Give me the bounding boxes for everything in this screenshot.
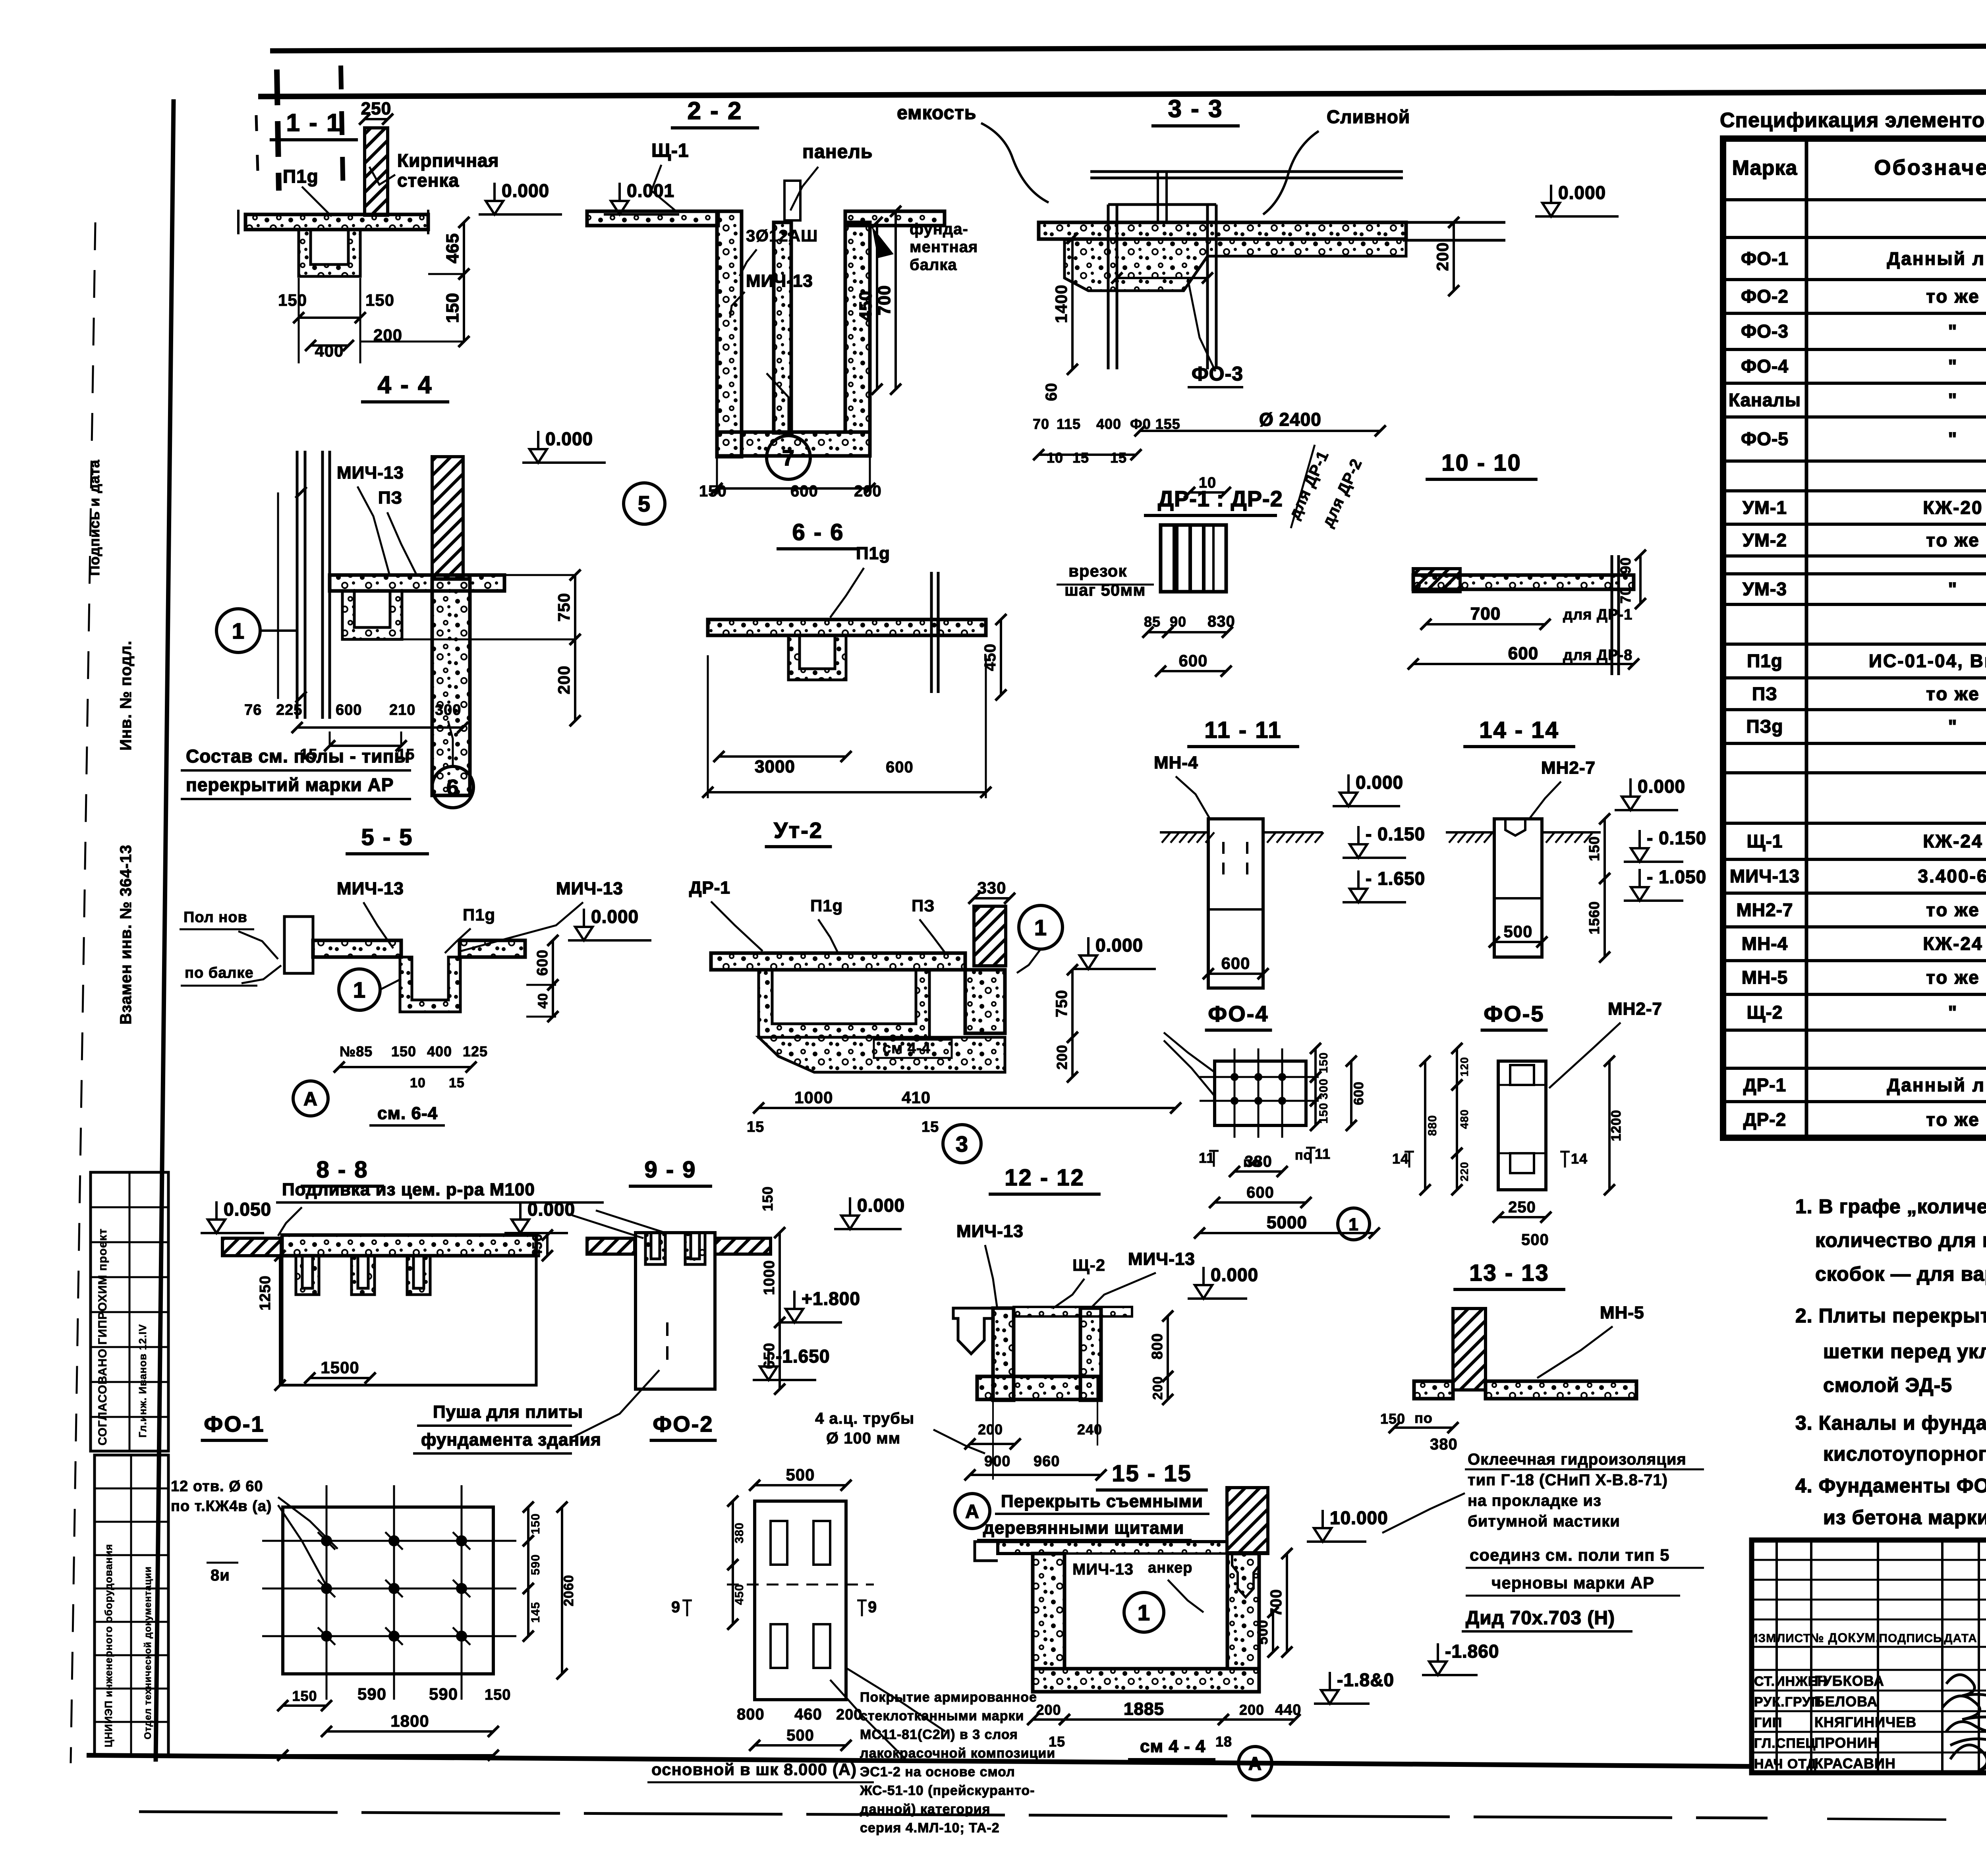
svg-text:ПРОНИН: ПРОНИН xyxy=(1814,1735,1878,1751)
svg-text:СОГЛАСОВАНО ГИПРОХИМ проект: СОГЛАСОВАНО ГИПРОХИМ проект xyxy=(96,1228,109,1446)
svg-text:КРАСАВИН: КРАСАВИН xyxy=(1814,1755,1896,1772)
svg-text:ДР-1: ДР-1 xyxy=(1743,1075,1786,1095)
svg-text:": " xyxy=(1948,356,1958,376)
svg-text:0.000: 0.000 xyxy=(545,428,593,449)
svg-text:1000: 1000 xyxy=(761,1260,778,1295)
svg-text:А: А xyxy=(1248,1753,1262,1774)
svg-text:500: 500 xyxy=(1503,922,1532,941)
svg-text:85: 85 xyxy=(1144,614,1161,630)
svg-text:НАЧ ОТД: НАЧ ОТД xyxy=(1754,1756,1816,1772)
svg-text:то же: то же xyxy=(1926,530,1980,550)
svg-text:1200: 1200 xyxy=(1609,1110,1624,1141)
svg-text:330: 330 xyxy=(977,878,1006,897)
svg-text:ПЗ: ПЗ xyxy=(912,896,935,915)
sheet left border xyxy=(156,99,174,1762)
title block xyxy=(1752,1540,1986,1773)
svg-text:0.000: 0.000 xyxy=(1638,776,1685,797)
svg-text:150: 150 xyxy=(759,1186,776,1211)
svg-text:- 0.150: - 0.150 xyxy=(1647,828,1706,848)
svg-text:Гл.инж. Иванов 12.IV: Гл.инж. Иванов 12.IV xyxy=(137,1324,149,1438)
svg-text:150: 150 xyxy=(292,1688,317,1704)
svg-text:150: 150 xyxy=(391,1043,416,1060)
svg-text:5: 5 xyxy=(638,491,651,516)
svg-text:ДР-2: ДР-2 xyxy=(1743,1109,1786,1130)
svg-text:МИЧ-13: МИЧ-13 xyxy=(337,463,404,483)
svg-text:1. В графе „количество" в: 1. В графе „количество" в скобках указан… xyxy=(1795,1195,1986,1218)
svg-text:по балке: по балке xyxy=(185,965,254,981)
svg-text:200: 200 xyxy=(1036,1702,1061,1718)
svg-text:УМ-3: УМ-3 xyxy=(1743,579,1787,599)
svg-text:210: 210 xyxy=(389,702,415,718)
svg-text:4 а.ц. трубы: 4 а.ц. трубы xyxy=(815,1410,914,1427)
svg-text:900: 900 xyxy=(984,1453,1010,1470)
svg-text:145: 145 xyxy=(529,1602,542,1623)
svg-text:200: 200 xyxy=(836,1706,862,1723)
svg-text:15: 15 xyxy=(1110,450,1127,466)
svg-text:Взамен инв. № 364-13: Взамен инв. № 364-13 xyxy=(117,845,135,1025)
svg-text:830: 830 xyxy=(1207,613,1235,630)
svg-text:-1.860: -1.860 xyxy=(1445,1641,1499,1662)
svg-text:Марка: Марка xyxy=(1732,156,1798,179)
svg-text:ЛИСТ: ЛИСТ xyxy=(1777,1632,1811,1645)
svg-text:240: 240 xyxy=(1077,1421,1102,1438)
svg-text:тип Г-18 (СНиП X-В.8-71): тип Г-18 (СНиП X-В.8-71) xyxy=(1468,1471,1668,1489)
svg-text:П1g: П1g xyxy=(810,896,843,915)
svg-text:8и: 8и xyxy=(211,1567,230,1584)
svg-text:15 - 15: 15 - 15 xyxy=(1112,1461,1192,1486)
svg-text:1560: 1560 xyxy=(1586,901,1602,934)
sheet bottom border xyxy=(87,1755,1751,1766)
svg-text:ФО-3: ФО-3 xyxy=(1741,321,1789,342)
svg-text:600: 600 xyxy=(1246,1184,1274,1201)
svg-text:Ø 100 мм: Ø 100 мм xyxy=(826,1430,900,1447)
svg-text:9: 9 xyxy=(868,1598,877,1616)
svg-text:3.400-6: 3.400-6 xyxy=(1918,866,1986,886)
svg-text:Подпись и дата: Подпись и дата xyxy=(86,459,102,576)
svg-text:90: 90 xyxy=(1170,614,1186,630)
svg-text:ПЗ: ПЗ xyxy=(1752,683,1777,704)
svg-text:Пуша для плиты: Пуша для плиты xyxy=(433,1402,583,1422)
svg-text:фундамента здания: фундамента здания xyxy=(421,1430,601,1449)
svg-text:РУК.ГРУП: РУК.ГРУП xyxy=(1754,1695,1821,1710)
svg-text:Щ-2: Щ-2 xyxy=(1072,1256,1105,1274)
svg-text:Перекрыть съемными: Перекрыть съемными xyxy=(1001,1492,1203,1511)
svg-text:Дид 70х.703 (Н): Дид 70х.703 (Н) xyxy=(1466,1608,1615,1629)
svg-text:ФО-5: ФО-5 xyxy=(1741,428,1789,449)
svg-text:450: 450 xyxy=(530,1233,545,1257)
svg-text:ментная: ментная xyxy=(910,238,978,256)
svg-text:фунда-: фунда- xyxy=(910,220,968,238)
svg-text:ФО-2: ФО-2 xyxy=(1741,286,1789,307)
svg-text:1 - 1: 1 - 1 xyxy=(286,109,341,137)
svg-text:650: 650 xyxy=(761,1343,778,1369)
svg-text:600: 600 xyxy=(1178,651,1207,670)
svg-text:ФО-1: ФО-1 xyxy=(1741,248,1789,269)
svg-text:150: 150 xyxy=(1317,1102,1330,1123)
svg-text:ФО-4: ФО-4 xyxy=(1741,356,1789,376)
svg-text:Ø 2400: Ø 2400 xyxy=(1259,409,1321,430)
svg-text:ЭС1-2 на основе смол: ЭС1-2 на основе смол xyxy=(860,1764,1015,1779)
svg-text:Пол нов: Пол нов xyxy=(184,909,247,926)
svg-text:500: 500 xyxy=(786,1465,815,1484)
svg-text:МИЧ-13: МИЧ-13 xyxy=(956,1222,1024,1241)
svg-text:-1.650: -1.650 xyxy=(776,1346,830,1366)
svg-text:МН-5: МН-5 xyxy=(1742,967,1788,988)
svg-text:0.000: 0.000 xyxy=(502,180,549,201)
svg-text:ЦНИИЭП инженерного оборудовани: ЦНИИЭП инженерного оборудования xyxy=(102,1544,114,1747)
svg-text:см. 6-4: см. 6-4 xyxy=(377,1104,438,1123)
svg-text:0.000: 0.000 xyxy=(857,1195,905,1216)
svg-text:250: 250 xyxy=(1508,1199,1536,1216)
svg-text:76: 76 xyxy=(244,702,262,718)
svg-text:МН-5: МН-5 xyxy=(1600,1303,1644,1322)
svg-text:4. Фундаменты ФО-1, ФО-2, ФО: 4. Фундаменты ФО-1, ФО-2, ФО-4 выполнять xyxy=(1795,1475,1986,1497)
svg-text:400: 400 xyxy=(315,342,344,360)
svg-text:150: 150 xyxy=(529,1513,542,1534)
svg-text:1: 1 xyxy=(353,977,366,1002)
svg-text:3Ø12АШ: 3Ø12АШ xyxy=(746,226,818,245)
svg-text:ДАТА: ДАТА xyxy=(1944,1632,1977,1645)
svg-text:шетки перед укладкой окраси: шетки перед укладкой окрасить эпоксидной xyxy=(1823,1340,1986,1363)
svg-text:600: 600 xyxy=(886,759,914,776)
svg-text:14: 14 xyxy=(1392,1150,1409,1167)
svg-text:ФО-2: ФО-2 xyxy=(653,1411,713,1436)
svg-text:0.050: 0.050 xyxy=(224,1199,271,1220)
svg-text:данной) категория: данной) категория xyxy=(860,1802,990,1817)
svg-text:МИЧ-13: МИЧ-13 xyxy=(746,271,813,291)
svg-text:150: 150 xyxy=(1317,1052,1330,1073)
svg-text:125: 125 xyxy=(463,1043,488,1060)
svg-text:ДР-1 : ДР-2: ДР-1 : ДР-2 xyxy=(1158,486,1283,511)
svg-text:УМ-1: УМ-1 xyxy=(1743,497,1787,518)
svg-text:0.000: 0.000 xyxy=(591,906,639,927)
svg-text:1400: 1400 xyxy=(1052,284,1070,323)
svg-text:90: 90 xyxy=(1617,557,1634,574)
svg-text:ГИП: ГИП xyxy=(1754,1715,1782,1730)
svg-text:стенка: стенка xyxy=(397,170,459,191)
svg-text:15: 15 xyxy=(747,1119,764,1135)
svg-text:по: по xyxy=(1295,1148,1312,1163)
svg-text:3000: 3000 xyxy=(755,757,795,776)
svg-text:800: 800 xyxy=(737,1706,765,1723)
svg-text:": " xyxy=(1948,716,1958,737)
svg-text:": " xyxy=(1948,428,1958,449)
svg-text:ГУБКОВА: ГУБКОВА xyxy=(1814,1673,1884,1689)
svg-text:6 - 6: 6 - 6 xyxy=(792,519,844,545)
svg-text:№85: №85 xyxy=(340,1043,373,1060)
svg-text:ФО-4: ФО-4 xyxy=(1208,1001,1269,1026)
svg-text:МН2-7: МН2-7 xyxy=(1608,999,1662,1019)
svg-text:ПЗ: ПЗ xyxy=(378,488,402,508)
svg-text:деревянными щитами: деревянными щитами xyxy=(983,1518,1184,1538)
svg-text:лакокрасочной композиции: лакокрасочной композиции xyxy=(860,1746,1055,1761)
svg-text:А: А xyxy=(965,1501,979,1522)
svg-text:960: 960 xyxy=(1034,1453,1060,1470)
svg-text:450: 450 xyxy=(981,643,999,671)
svg-text:15: 15 xyxy=(449,1075,465,1090)
svg-text:1500: 1500 xyxy=(321,1358,359,1377)
svg-text:600: 600 xyxy=(1351,1081,1366,1105)
svg-text:№ ДОКУМ.: № ДОКУМ. xyxy=(1810,1631,1880,1645)
svg-text:18: 18 xyxy=(1215,1733,1232,1750)
svg-text:600: 600 xyxy=(534,950,551,976)
svg-text:МИЧ-13: МИЧ-13 xyxy=(1072,1561,1134,1578)
svg-text:- 1.650: - 1.650 xyxy=(1366,868,1425,889)
signatures xyxy=(1946,1675,1986,1700)
svg-text:1800: 1800 xyxy=(390,1712,429,1730)
svg-text:кислотоупорного бетона марки: кислотоупорного бетона марки „200". xyxy=(1823,1443,1986,1465)
svg-text:": " xyxy=(1948,321,1958,342)
svg-text:2 - 2: 2 - 2 xyxy=(687,97,742,125)
svg-text:10: 10 xyxy=(410,1075,426,1090)
svg-text:12 - 12: 12 - 12 xyxy=(1005,1165,1085,1191)
svg-text:750: 750 xyxy=(1053,990,1070,1017)
svg-text:590: 590 xyxy=(529,1554,542,1575)
svg-text:МС11-81(С2И) в 3 слоя: МС11-81(С2И) в 3 слоя xyxy=(860,1727,1018,1742)
svg-text:Ф0 155: Ф0 155 xyxy=(1130,416,1180,432)
svg-text:Щ-1: Щ-1 xyxy=(651,140,689,161)
svg-text:200: 200 xyxy=(978,1421,1003,1438)
svg-text:700: 700 xyxy=(1267,1589,1285,1617)
svg-text:+1.800: +1.800 xyxy=(802,1288,860,1309)
svg-text:битумной мастики: битумной мастики xyxy=(1468,1513,1620,1530)
svg-text:500: 500 xyxy=(1521,1231,1549,1249)
svg-text:для ДР-8: для ДР-8 xyxy=(1563,647,1632,664)
svg-text:15: 15 xyxy=(1072,450,1089,466)
svg-text:380: 380 xyxy=(1244,1153,1272,1170)
svg-text:12 отв. Ø 60: 12 отв. Ø 60 xyxy=(171,1478,263,1495)
svg-text:200: 200 xyxy=(1054,1044,1070,1069)
svg-text:МН2-7: МН2-7 xyxy=(1541,758,1596,778)
svg-text:МН2-7: МН2-7 xyxy=(1736,899,1793,920)
svg-text:14 - 14: 14 - 14 xyxy=(1479,717,1559,743)
svg-text:Отдел технической документац: Отдел технической документации xyxy=(143,1566,153,1739)
svg-text:1000: 1000 xyxy=(794,1088,833,1107)
svg-text:10.000: 10.000 xyxy=(1330,1507,1388,1528)
svg-text:КЖ-20: КЖ-20 xyxy=(1923,497,1983,518)
svg-text:1: 1 xyxy=(232,618,245,643)
svg-text:Инв. № подл.: Инв. № подл. xyxy=(117,641,135,751)
svg-text:то же: то же xyxy=(1926,286,1980,307)
svg-text:3. Каналы и фундаменты ФО-3: 3. Каналы и фундаменты ФО-3 выполнять из xyxy=(1795,1412,1986,1434)
svg-text:": " xyxy=(1948,1002,1958,1023)
svg-text:60: 60 xyxy=(1043,383,1060,401)
svg-text:-1.8&0: -1.8&0 xyxy=(1337,1669,1394,1690)
svg-text:11: 11 xyxy=(1315,1146,1331,1162)
spec table grid xyxy=(1723,139,1986,1138)
svg-text:0.000: 0.000 xyxy=(1211,1264,1258,1285)
svg-text:150: 150 xyxy=(278,291,307,309)
svg-text:": " xyxy=(1948,390,1958,410)
svg-text:МИЧ-13: МИЧ-13 xyxy=(1128,1249,1195,1269)
svg-text:МИЧ-13: МИЧ-13 xyxy=(556,879,623,898)
svg-text:13 - 13: 13 - 13 xyxy=(1469,1260,1549,1286)
svg-text:500: 500 xyxy=(786,1727,814,1744)
svg-text:400: 400 xyxy=(1096,416,1121,432)
svg-text:серия 4.МЛ-10; ТА-2: серия 4.МЛ-10; ТА-2 xyxy=(860,1820,1000,1835)
svg-text:70: 70 xyxy=(1617,587,1634,604)
svg-text:анкер: анкер xyxy=(1148,1559,1192,1576)
svg-text:Щ-1: Щ-1 xyxy=(1747,831,1783,851)
svg-text:скобок — для варианта с: скобок — для варианта сточных вод. xyxy=(1815,1263,1986,1285)
svg-text:ФО-3: ФО-3 xyxy=(1192,363,1243,385)
svg-text:200: 200 xyxy=(554,665,573,694)
margin stamp table bottom-left xyxy=(91,1172,168,1451)
svg-text:Данный лист: Данный лист xyxy=(1887,248,1986,269)
svg-text:П1g: П1g xyxy=(856,544,890,563)
svg-text:смолой ЭД-5: смолой ЭД-5 xyxy=(1823,1374,1952,1396)
svg-text:Данный лист: Данный лист xyxy=(1887,1075,1986,1095)
svg-text:15: 15 xyxy=(1049,1733,1065,1750)
svg-text:3 - 3: 3 - 3 xyxy=(1168,95,1223,123)
svg-text:9 - 9: 9 - 9 xyxy=(644,1157,696,1183)
svg-text:300: 300 xyxy=(435,702,461,718)
svg-text:Кирпичная: Кирпичная xyxy=(397,150,499,171)
svg-text:на прокладке из: на прокладке из xyxy=(1468,1492,1602,1509)
svg-text:ГЛ.СПЕЦ: ГЛ.СПЕЦ xyxy=(1754,1736,1816,1751)
svg-text:то же: то же xyxy=(1926,967,1980,988)
svg-text:ФО-1: ФО-1 xyxy=(204,1411,265,1436)
svg-text:П1g: П1g xyxy=(463,905,495,924)
svg-text:200: 200 xyxy=(1239,1702,1264,1718)
svg-text:800: 800 xyxy=(1149,1333,1166,1359)
svg-text:150: 150 xyxy=(365,291,394,309)
svg-text:200: 200 xyxy=(1150,1376,1165,1400)
svg-text:ИЗМ: ИЗМ xyxy=(1749,1632,1776,1645)
svg-text:115: 115 xyxy=(1057,416,1081,432)
svg-text:11: 11 xyxy=(1199,1150,1215,1166)
svg-text:МН-4: МН-4 xyxy=(1742,933,1788,954)
svg-text:600: 600 xyxy=(1508,644,1538,663)
svg-text:5000: 5000 xyxy=(1267,1213,1307,1232)
svg-text:150: 150 xyxy=(1380,1411,1405,1427)
svg-text:200: 200 xyxy=(373,326,402,344)
svg-text:балка: балка xyxy=(910,256,957,274)
svg-text:ПЗg: ПЗg xyxy=(1746,716,1783,737)
svg-text:1: 1 xyxy=(1348,1215,1358,1234)
svg-text:750: 750 xyxy=(554,593,573,621)
svg-text:590: 590 xyxy=(429,1685,458,1703)
svg-text:1250: 1250 xyxy=(257,1275,274,1310)
svg-text:1: 1 xyxy=(1034,915,1047,940)
svg-text:150: 150 xyxy=(485,1687,511,1703)
svg-text:400: 400 xyxy=(427,1043,452,1060)
svg-text:220: 220 xyxy=(1458,1162,1470,1181)
svg-text:0.000: 0.000 xyxy=(527,1199,575,1220)
svg-text:6: 6 xyxy=(446,775,459,800)
svg-text:Сливной: Сливной xyxy=(1327,106,1410,127)
svg-text:перекрытий марки АР: перекрытий марки АР xyxy=(186,774,394,795)
svg-text:шаг 50мм: шаг 50мм xyxy=(1064,581,1146,599)
svg-text:Спецификация элементов к ма: Спецификация элементов к маркировочной с… xyxy=(1720,109,1986,132)
svg-text:- 0.150: - 0.150 xyxy=(1366,824,1425,844)
svg-text:то же: то же xyxy=(1926,1109,1980,1130)
svg-text:см 4 - 4: см 4 - 4 xyxy=(1140,1737,1206,1756)
svg-text:2060: 2060 xyxy=(561,1575,576,1606)
svg-text:П1g: П1g xyxy=(283,166,319,187)
svg-text:450: 450 xyxy=(733,1584,746,1605)
svg-text:14: 14 xyxy=(1571,1150,1588,1167)
svg-text:МИЧ-13: МИЧ-13 xyxy=(337,879,404,898)
svg-text:А: А xyxy=(303,1089,318,1110)
svg-text:10 - 10: 10 - 10 xyxy=(1441,450,1522,476)
svg-text:0.000: 0.000 xyxy=(1558,182,1606,203)
svg-text:500: 500 xyxy=(1254,1619,1271,1644)
svg-text:врезок: врезок xyxy=(1068,562,1127,580)
svg-text:ИС-01-04, Вып. 2: ИС-01-04, Вып. 2 xyxy=(1869,650,1986,671)
svg-text:380: 380 xyxy=(1430,1436,1458,1453)
svg-text:для ДР-1: для ДР-1 xyxy=(1563,606,1632,623)
svg-text:БЕЛОВА: БЕЛОВА xyxy=(1814,1693,1878,1710)
svg-text:Щ-2: Щ-2 xyxy=(1747,1002,1783,1023)
svg-text:9: 9 xyxy=(671,1598,680,1616)
svg-text:КЖ-24: КЖ-24 xyxy=(1923,831,1983,851)
svg-text:по т.КЖ4в (а): по т.КЖ4в (а) xyxy=(171,1498,272,1515)
svg-text:ЖС-51-10 (прейскуранто-: ЖС-51-10 (прейскуранто- xyxy=(860,1783,1035,1798)
svg-text:10: 10 xyxy=(1199,475,1216,491)
svg-text:- 1.050: - 1.050 xyxy=(1647,867,1706,887)
svg-text:200: 200 xyxy=(1433,242,1452,271)
svg-text:1: 1 xyxy=(1138,1600,1150,1625)
svg-text:Подливка из цем. р-ра М100: Подливка из цем. р-ра М100 xyxy=(282,1180,535,1199)
svg-text:460: 460 xyxy=(794,1706,822,1723)
svg-text:количество для варианта п: количество для варианта питьевых вод, бе… xyxy=(1815,1229,1986,1251)
svg-text:то же: то же xyxy=(1926,899,1980,920)
svg-text:по: по xyxy=(1414,1410,1433,1426)
svg-text:5 - 5: 5 - 5 xyxy=(361,824,413,850)
svg-text:из бетона марки 100.: из бетона марки 100. xyxy=(1823,1506,1986,1529)
svg-text:465: 465 xyxy=(443,233,462,263)
svg-text:250: 250 xyxy=(361,99,391,118)
svg-text:стеклотканными марки: стеклотканными марки xyxy=(860,1708,1024,1724)
svg-text:2. Плиты перекрытия канало: 2. Плиты перекрытия каналов и деревянные… xyxy=(1795,1305,1986,1327)
svg-text:Обозначение: Обозначение xyxy=(1874,156,1986,179)
svg-text:40: 40 xyxy=(535,993,551,1009)
svg-text:700: 700 xyxy=(1470,604,1501,623)
svg-text:МН-4: МН-4 xyxy=(1154,753,1198,772)
svg-text:225: 225 xyxy=(276,702,302,718)
svg-text:то же: то же xyxy=(1926,683,1980,704)
svg-text:880: 880 xyxy=(1426,1115,1439,1136)
svg-text:200: 200 xyxy=(854,483,882,500)
svg-text:7: 7 xyxy=(782,445,795,470)
svg-text:Оклеечная гидроизоляция: Оклеечная гидроизоляция xyxy=(1468,1451,1687,1468)
svg-text:600: 600 xyxy=(336,702,362,718)
svg-text:см 4-4: см 4-4 xyxy=(883,1040,931,1057)
svg-text:основной в шк 8.000 (А): основной в шк 8.000 (А) xyxy=(651,1760,857,1779)
svg-text:590: 590 xyxy=(357,1685,386,1703)
svg-text:4 - 4: 4 - 4 xyxy=(377,371,433,399)
svg-text:панель: панель xyxy=(802,141,873,162)
svg-text:Каналы: Каналы xyxy=(1729,390,1801,410)
svg-text:10: 10 xyxy=(1047,450,1063,466)
svg-text:150: 150 xyxy=(699,483,727,500)
svg-text:": " xyxy=(1948,579,1958,599)
svg-text:70: 70 xyxy=(1033,416,1049,432)
svg-text:черновы марки АР: черновы марки АР xyxy=(1491,1573,1654,1592)
svg-text:Покрытие армированное: Покрытие армированное xyxy=(860,1690,1037,1705)
svg-text:УМ-2: УМ-2 xyxy=(1743,530,1787,550)
svg-text:11 - 11: 11 - 11 xyxy=(1204,717,1282,743)
scan smudge streaks top-left xyxy=(277,69,279,191)
svg-text:ДР-1: ДР-1 xyxy=(689,878,730,897)
svg-text:8 - 8: 8 - 8 xyxy=(316,1157,368,1183)
svg-text:150: 150 xyxy=(443,293,462,323)
svg-text:П1g: П1g xyxy=(1747,650,1783,671)
svg-text:Состав см. полы - типы: Состав см. полы - типы xyxy=(186,746,410,766)
svg-text:0.000: 0.000 xyxy=(1095,935,1143,955)
svg-text:3: 3 xyxy=(956,1131,968,1156)
